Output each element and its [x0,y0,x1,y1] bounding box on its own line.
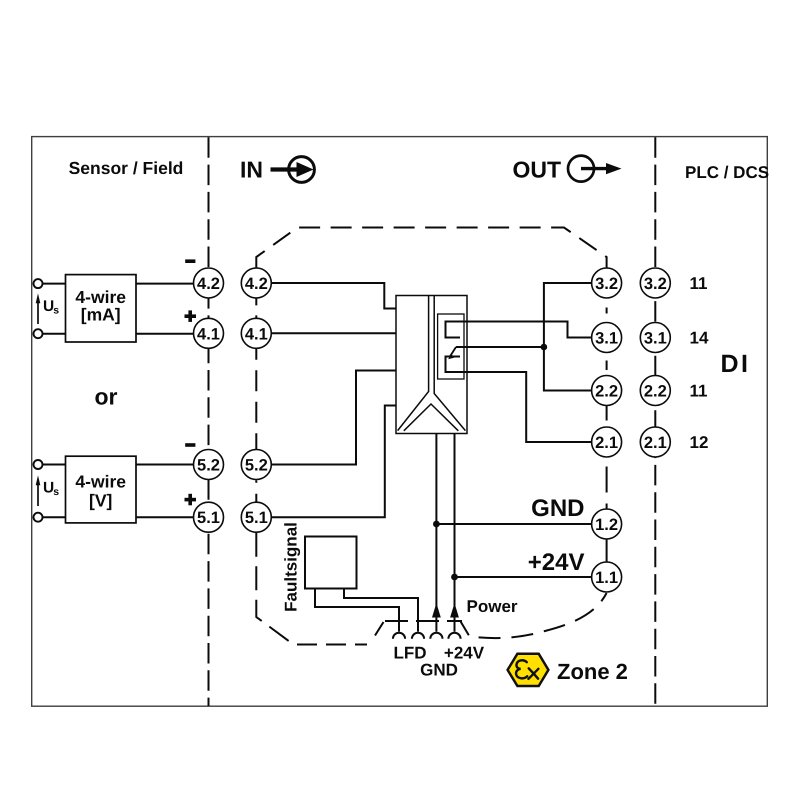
device boundary stub 4.2-4.1 [255,298,257,318]
relay switch arm [449,347,456,358]
svg-text:[V]: [V] [89,490,112,510]
svg-text:[mA]: [mA] [81,304,121,324]
junction +24V [451,574,458,581]
minus sign (5.2) [185,443,195,447]
svg-text:+24V: +24V [528,549,585,576]
svg-text:Faultsignal: Faultsignal [282,522,301,612]
Us arrow (mA source) [36,293,60,324]
device boundary stub 4.1-5.2 [255,349,257,449]
svg-text:or: or [95,383,118,409]
svg-text:3.2: 3.2 [644,275,667,293]
svg-text:GND: GND [420,661,458,680]
svg-text:IN: IN [240,157,263,183]
device boundary stub 5.2-5.1 [255,480,257,502]
wire [136,283,194,285]
svg-text:3.2: 3.2 [595,275,618,293]
svg-text:4.1: 4.1 [197,325,220,343]
svg-text:11: 11 [690,382,708,401]
svg-text:PLC / DCS: PLC / DCS [685,163,769,182]
wire junction to 2.2 [544,347,592,391]
power arrow up (+24V line) [450,603,459,618]
svg-text:1.1: 1.1 [595,569,618,587]
svg-text:3.1: 3.1 [644,330,667,348]
svg-text:5.2: 5.2 [245,457,268,475]
terminal 2.1 (device out) [592,427,622,457]
terminal 3.2 (device out) [592,268,622,298]
svg-text:+24V: +24V [444,644,485,663]
terminal 2.2 (PLC) [640,376,670,406]
terminal 5.1 (field) [194,502,224,532]
svg-text:Zone 2: Zone 2 [557,659,628,684]
power arrow up (GND line) [432,603,441,618]
Ex zone logo [508,654,549,686]
wire GND to 1.2 [436,523,591,525]
wire [136,333,194,335]
wire input 5.2 to device [271,371,396,465]
terminal socket +24V [448,633,460,639]
OUT direction icon [568,156,622,182]
terminal 5.2 (device in) [241,450,271,480]
svg-text:2.1: 2.1 [644,434,667,452]
device boundary stub 2.2-2.1 [606,406,608,421]
power wire +24V (right vertical) [454,434,456,632]
svg-text:4-wire: 4-wire [75,472,126,492]
IN direction icon [271,157,315,183]
terminal socket GND2 [430,633,442,639]
zone separator left (dashed) [208,137,210,268]
terminal socket GND [412,633,424,639]
terminal 4.1 (field) [194,318,224,348]
4-wire [mA] source block [66,275,137,342]
svg-text:5.1: 5.1 [245,509,268,527]
4-wire [V] source block [66,456,137,523]
wire [43,283,66,285]
wire input 4.2 to device [271,283,396,309]
svg-text:2.2: 2.2 [595,383,618,401]
terminal 4.2 (device in) [241,268,271,298]
svg-text:OUT: OUT [513,157,562,183]
device boundary stub 3.2-3.1 [606,308,608,314]
source terminal circles (field, V source) [34,460,43,469]
wire junction to 3.2 [544,283,592,347]
junction A [541,344,548,351]
isolation barrier Y symbol [398,296,429,431]
device boundary stub 3.1-2.2 [606,361,608,371]
device boundary left-bottom [256,533,293,645]
svg-text:2.1: 2.1 [595,434,618,452]
svg-text:14: 14 [690,329,709,348]
relay contact box [438,314,464,379]
svg-text:2.2: 2.2 [644,383,667,401]
svg-text:1.2: 1.2 [595,516,618,534]
svg-text:Sensor / Field: Sensor / Field [69,158,184,178]
terminal 2.1 (PLC) [640,427,670,457]
svg-text:4.2: 4.2 [197,275,220,293]
relay contact 14 (upper) and wire to 3.1 [446,322,592,338]
wire [136,464,194,466]
terminal 1.1 (device power) [592,562,622,592]
junction GND [433,521,440,528]
wire [136,516,194,518]
svg-text:5.2: 5.2 [197,457,220,475]
terminal 2.2 (device out) [592,376,622,406]
wire faultsignal GND [344,589,418,632]
plus sign (4.1) [185,310,197,322]
wire faultsignal LFD [315,589,399,632]
device boundary stub 2.1-1.2 [606,458,608,510]
Faultsignal block [282,522,357,612]
relay common wire to junction [456,346,544,348]
wire +24V to 1.1 [455,576,592,578]
svg-text:5.1: 5.1 [197,509,220,527]
wire [43,464,66,466]
Us arrow (V source) [36,475,60,506]
zone separator right (dashed) [654,137,656,706]
terminal 5.1 (device in) [241,502,271,532]
svg-text:4.2: 4.2 [245,275,268,293]
wire input 4.1 to device [271,332,396,334]
terminal 4.1 (device in) [241,318,271,348]
svg-text:3.1: 3.1 [595,330,618,348]
wire [43,333,66,335]
plus sign (5.1) [185,494,197,506]
wire [43,516,66,518]
svg-text:Power: Power [467,597,518,616]
isolator device U1 [396,296,467,434]
minus sign (4.2) [185,259,195,263]
wire 1.2 to 1.1 (solid) [606,539,608,562]
terminal 4.2 (field) [194,268,224,298]
terminal 3.2 (PLC) [640,268,670,298]
relay contact 12 (lower) and wire to 2.1 [446,357,592,443]
svg-text:11: 11 [690,274,708,293]
terminal 5.2 (field) [194,450,224,480]
svg-text:12: 12 [690,433,709,452]
svg-text:4.1: 4.1 [245,325,268,343]
power wire GND (left vertical) [435,434,437,632]
svg-text:GND: GND [531,495,584,522]
terminal 3.1 (device out) [592,323,622,353]
source terminal circles (field, mA source) [34,279,43,288]
svg-text:s: s [53,305,59,317]
terminal socket LFD [393,633,405,639]
svg-text:DI: DI [721,350,751,378]
terminal 1.2 (device power) [592,509,622,539]
wire input 5.1 to device [271,406,396,518]
terminal 3.1 (PLC) [640,323,670,353]
svg-text:s: s [53,486,59,498]
device boundary (dashed) top [256,228,606,268]
